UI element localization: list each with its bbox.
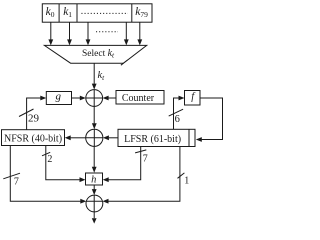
key register box [42,4,152,22]
box f [185,91,201,106]
wire X2 down to h [93,146,95,167]
wire LFSR 7-bit tap to h [109,147,141,180]
svg-text:k79: k79 [135,6,148,19]
arrowhead g into X1 [80,96,86,101]
svg-text:LFSR (61-bit): LFSR (61-bit) [124,134,181,145]
bus slash 6 [169,109,183,116]
svg-text:Counter: Counter [122,93,155,104]
arrowhead keystream out [92,218,97,223]
wire f feedback to LFSR [200,98,223,140]
svg-text:k0: k0 [46,6,55,19]
bus slash 29 [19,109,34,117]
wire k79 to selector [139,22,141,40]
wire NFSR 7-bit tap to X3 [10,146,80,202]
wire Counter to X1 [108,97,116,99]
arrowhead X2 into h [92,167,97,173]
svg-text:2: 2 [47,154,52,165]
wire LFSR to X2 [109,137,118,139]
arrowhead k2 [86,39,91,45]
wire LFSR tap to f [174,98,179,129]
wire k0 to selector [50,22,52,40]
svg-text:NFSR (40-bit): NFSR (40-bit) [4,134,62,145]
arrowhead NFSR tap into X3 [80,199,86,204]
box LFSR (61-bit) [118,129,195,146]
node XOR X3 [86,195,103,212]
arrowhead into f [179,96,185,101]
svg-text:h: h [91,175,96,186]
svg-text:f: f [191,92,196,103]
wire X2 to NFSR [71,137,86,139]
svg-text:k1: k1 [63,6,72,19]
wire k78 to selector [125,22,127,40]
arrowhead X2 into NFSR [65,135,71,140]
arrowhead k78 [124,39,129,45]
wire X1 to X2 [93,106,95,123]
svg-text:7: 7 [14,176,19,187]
wire LFSR 1-bit tap to X3 [108,147,180,202]
arrowhead k0 [48,39,53,45]
bus slash 1 [178,173,185,178]
box g [46,92,71,105]
wire kt output [93,63,95,84]
arrowhead kt into X1 [92,84,97,90]
arrowhead f feedback into LFSR [196,137,202,142]
box h [86,173,103,185]
arrowhead h into X3 [92,189,97,195]
dotted ellipsis inside key register [81,12,128,14]
svg-text:1: 1 [184,175,189,186]
bus slash 7 left [3,173,20,179]
key register cell divider 2 [76,4,78,22]
svg-text:Select kt: Select kt [82,48,115,60]
arrowhead into g [40,96,46,101]
bus slash 2 [42,152,50,156]
arrowhead NFSR tap into h [80,177,86,182]
svg-text:7: 7 [143,153,148,164]
wire g to X1 [72,97,81,99]
node XOR X2 [86,129,103,146]
svg-text:kt: kt [98,70,106,82]
wire NFSR tap to g [27,98,41,130]
arrowhead LFSR tap into X3 [103,199,109,204]
svg-text:29: 29 [28,113,40,125]
wire NFSR 2-bit tap to h [46,146,80,180]
arrowhead k1 [67,39,72,45]
bus slash 7 right [135,150,146,153]
arrowhead X1 into X2 [92,123,97,129]
LFSR end cell divider [188,129,190,146]
node XOR X1 [86,90,103,107]
selector tail stroke [121,63,124,65]
arrowhead k79 [137,39,142,45]
wire k1 to selector [69,22,71,40]
arrowhead LFSR tap into h [103,177,109,182]
dotted ellipsis between wires [96,31,118,33]
selector trapezoid Select kt [44,45,146,63]
arrowhead Counter into X1 [103,96,109,101]
wire keystream output [93,212,95,218]
wire k2 to selector [87,22,89,40]
key register cell divider 1 [58,4,60,22]
key register cell divider 3 [131,4,133,22]
arrowhead LFSR into X2 [103,135,109,140]
wire h to X3 [93,185,95,189]
box Counter [116,91,164,105]
svg-text:g: g [56,91,62,103]
svg-text:6: 6 [175,114,180,125]
box NFSR (40-bit) [2,130,65,146]
